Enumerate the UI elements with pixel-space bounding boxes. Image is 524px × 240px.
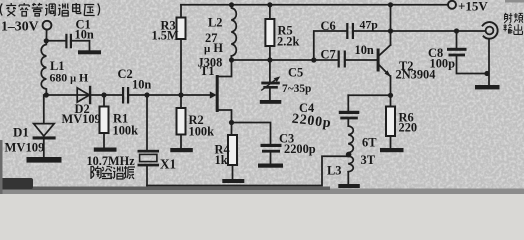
label 陶瓷谐振 (ceramic resonator)	[91, 166, 135, 179]
ground L3	[338, 184, 360, 188]
resistor R1	[103, 95, 105, 107]
resistor R3	[180, 5, 182, 18]
inductor L1	[41, 41, 46, 95]
wire RF output line	[391, 30, 486, 32]
svg-text:C6: C6	[321, 19, 336, 33]
transistor T2 2N3904	[377, 49, 380, 72]
crystal X1	[146, 95, 148, 150]
wire drain bus	[232, 59, 339, 61]
wire tap to X1	[147, 156, 349, 185]
node C1/L1	[44, 38, 49, 43]
diode D2 MV109	[77, 88, 89, 102]
ground C5	[260, 100, 282, 104]
svg-text:X1: X1	[160, 157, 176, 172]
svg-text:μ H: μ H	[204, 41, 223, 55]
wire gate rail	[46, 94, 122, 96]
wire C6 branch	[314, 31, 346, 60]
svg-text:T1: T1	[200, 64, 214, 78]
capacitor C8	[456, 31, 458, 48]
node L3 tap	[346, 152, 352, 158]
svg-text:2200p: 2200p	[284, 142, 316, 156]
scan artifacts	[0, 189, 524, 195]
svg-text:10n: 10n	[75, 28, 94, 42]
resistor R5	[269, 5, 271, 19]
ground C1	[78, 50, 101, 54]
node X1 branch	[144, 92, 149, 97]
transistor T1 J308 JFET	[210, 91, 217, 98]
svg-text:C5: C5	[288, 66, 303, 80]
resistor R6	[390, 95, 392, 106]
wire top +V rail	[181, 4, 448, 6]
svg-text:C7: C7	[321, 48, 336, 62]
ground R6	[380, 148, 404, 152]
svg-text:10n: 10n	[355, 43, 374, 57]
node T2 collector top	[388, 2, 393, 7]
inductor L3	[348, 126, 353, 172]
node D2/R1	[101, 92, 106, 97]
terminal +15V	[448, 1, 456, 9]
svg-text:100k: 100k	[189, 125, 215, 139]
svg-text:100p: 100p	[430, 57, 456, 71]
svg-text:+15V: +15V	[458, 0, 488, 14]
node source	[229, 120, 234, 125]
svg-text:2.2k: 2.2k	[277, 35, 299, 49]
resistor R2	[180, 95, 182, 108]
svg-text:47p: 47p	[360, 18, 379, 32]
svg-text:3T: 3T	[361, 153, 376, 167]
svg-text:10n: 10n	[132, 78, 151, 92]
node shield	[484, 71, 489, 76]
connector RF output jack	[483, 22, 498, 39]
capacitor C7	[338, 51, 340, 68]
svg-text:1k: 1k	[215, 153, 228, 167]
node collector/C6	[388, 28, 393, 33]
node R5/C5	[267, 57, 272, 62]
ground D1	[27, 157, 62, 163]
svg-text:220: 220	[399, 121, 418, 135]
label title 变容管调谐电压 (varactor tuning voltage)	[0, 3, 99, 16]
wire to C1	[46, 40, 65, 42]
capacitor C3	[261, 144, 282, 147]
node C8 top	[454, 28, 459, 33]
capacitor C4	[347, 95, 349, 111]
wire C6 to collector	[354, 30, 391, 32]
node R3/R2	[178, 92, 183, 97]
svg-text:10.7MHz: 10.7MHz	[87, 154, 136, 168]
svg-text:MV109: MV109	[62, 112, 101, 126]
svg-text:1.5M: 1.5M	[152, 29, 179, 43]
diode D1 MV109	[43, 95, 45, 124]
svg-text:L3: L3	[327, 164, 341, 178]
resistor R4	[231, 123, 233, 136]
node R5 top	[267, 2, 272, 7]
ground R4	[222, 179, 244, 183]
node L1/D1	[44, 92, 49, 97]
node C6 branch	[311, 57, 316, 62]
svg-text:D1: D1	[13, 125, 29, 140]
svg-text:100k: 100k	[113, 124, 139, 138]
capacitor C5 variable	[269, 60, 271, 82]
ground C3	[258, 164, 283, 168]
capacitor C6	[346, 23, 348, 39]
node drain/L2	[229, 57, 234, 62]
wire emitter rail	[348, 94, 390, 96]
node emitter/R6	[388, 93, 393, 98]
capacitor C1	[65, 34, 67, 49]
capacitor C2	[122, 87, 124, 104]
svg-text:MV109: MV109	[5, 141, 45, 155]
svg-text:680 μ H: 680 μ H	[50, 71, 89, 85]
wire source to C3	[232, 123, 271, 144]
svg-text:7~35p: 7~35p	[282, 83, 311, 95]
svg-text:1–30V: 1–30V	[1, 19, 39, 34]
svg-text:C2: C2	[118, 67, 133, 81]
ground R2	[170, 148, 193, 152]
inductor L2	[231, 5, 236, 60]
node L2 top	[229, 2, 234, 7]
ground connector	[475, 85, 500, 89]
svg-text:6T: 6T	[362, 136, 377, 150]
terminal 1-30V	[43, 21, 52, 30]
svg-text:L2: L2	[208, 16, 222, 30]
ground R1	[94, 148, 117, 152]
label 射频输出 (RF output)	[503, 13, 522, 34]
